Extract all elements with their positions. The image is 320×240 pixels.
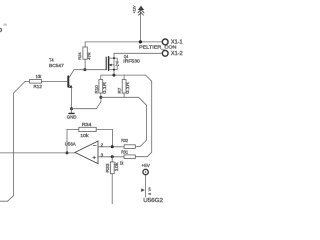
resistor R31 [124,155,135,159]
svg-text:R10: R10 [94,84,99,93]
wire R34 left down [66,129,68,153]
svg-text:1k: 1k [120,160,124,165]
gate bar [105,57,107,69]
resistor R7 [122,80,126,93]
node GND junction [70,107,73,110]
svg-text:10k: 10k [114,161,119,171]
wire base [42,80,68,82]
wire collector diagonal [69,70,74,78]
node sense rail junction [99,96,102,99]
svg-text:U56A: U56A [65,141,76,146]
plus sign [93,156,96,159]
wire R7 top stub [123,75,125,80]
drain pin [113,53,115,58]
svg-text:BC547: BC547 [49,63,64,68]
wire X1-2 to drain [114,52,162,54]
svg-text:X1-1: X1-1 [171,40,183,46]
transistor T4 base bar [67,76,69,86]
svg-text:IRF530: IRF530 [123,59,140,64]
transistor Q4 IRF530 [106,53,118,75]
right vertical [113,58,115,75]
wire R24 bottom [84,59,86,69]
wire feedback A vertical [151,81,153,152]
pin arrow U56 power [141,189,144,192]
svg-text:47R: 47R [87,52,92,60]
drain link [109,57,114,59]
svg-text:V+: V+ [148,187,152,191]
ground [69,112,74,114]
wire long left vertical [13,93,15,195]
wire bottom-left bevel [8,195,14,201]
resistor R32 [124,145,135,149]
resistor R12 [30,80,42,84]
wire source rail y=75 [101,74,146,76]
wire sense diagonal [96,102,101,109]
resistor R24 [83,47,87,59]
connector X1-2 [162,50,168,56]
svg-text:U56G2: U56G2 [143,198,163,204]
svg-text:PELTIER_CON: PELTIER_CON [139,45,177,51]
wire sense vertical [100,97,102,102]
resistor R10 [99,80,103,93]
wire sense rail [101,96,139,98]
minus sign [93,145,96,147]
svg-text:10k: 10k [36,74,42,79]
wire feedback B vertical [146,105,148,140]
channel bar [108,57,110,70]
svg-text:D: D [0,28,2,34]
resistor R34 [79,127,96,131]
svg-text:R12: R12 [34,84,43,89]
wire +12V rail y=41.5 [85,41,162,43]
wire R7 bottom stub [123,93,125,97]
node pin3 junction [111,155,114,158]
node MOSFET source junction [112,74,115,77]
wire to R32 [135,146,140,148]
wire R12 left [25,80,29,82]
svg-text:X1-2: X1-2 [171,51,183,57]
wire bevel B bottom [140,140,147,147]
wire R10 bottom stub [100,93,102,97]
wire gnd to sense [72,108,97,110]
pin node dots [113,57,115,59]
svg-text:R31: R31 [121,149,128,154]
wire R33 bottom [111,174,113,205]
body diode [114,58,117,70]
wire bottom-left out [0,200,8,202]
node junction +12V/rail [139,40,142,43]
wire bevel to feedback A [146,75,152,81]
svg-text:R7: R7 [117,87,122,94]
svg-text:T4: T4 [49,58,54,63]
wire GND stub [71,109,73,113]
wire to R31 [135,156,147,158]
svg-text:R34: R34 [82,122,92,127]
wire pin 3 [98,156,124,158]
svg-text:0.1R: 0.1R [125,82,130,94]
source link [109,69,114,71]
svg-text:R24: R24 [77,52,82,60]
svg-text:+12V: +12V [132,5,136,13]
svg-text:R33: R33 [105,163,110,173]
wire +12V stem [139,9,141,42]
svg-text:+5V: +5V [141,163,150,168]
wire R24 top corner [84,42,86,47]
svg-text:0.1R: 0.1R [102,82,107,94]
wire R10 top stub [100,75,102,80]
wire R34 right down [111,129,113,146]
faint mark above left-edge glyph [3,24,6,26]
wire emitter diagonal with arrow [69,85,71,88]
wire pin 2 [98,146,124,148]
node junction gate wire [83,68,86,71]
wire bevel to feedback B [139,97,147,105]
svg-text:R32: R32 [121,138,128,143]
resistor R33 [111,157,113,162]
wire emitter down [71,87,73,108]
wire R34 left [67,128,79,130]
node pin2 junction [111,145,114,148]
wire diagonal down-left [14,81,26,93]
power symbol +12V arrow [138,6,144,15]
svg-text:8: 8 [148,193,152,195]
node output junction [66,151,69,154]
svg-text:10k: 10k [80,133,89,138]
wire bevel A bottom [147,152,151,157]
wire +5V down [145,175,147,197]
svg-text:GND: GND [67,114,77,119]
wire output [0,152,75,154]
wire R34 right [96,128,112,130]
body arrow [111,64,114,66]
connector X1-1 [162,39,168,45]
wire collector to gate [74,69,106,71]
